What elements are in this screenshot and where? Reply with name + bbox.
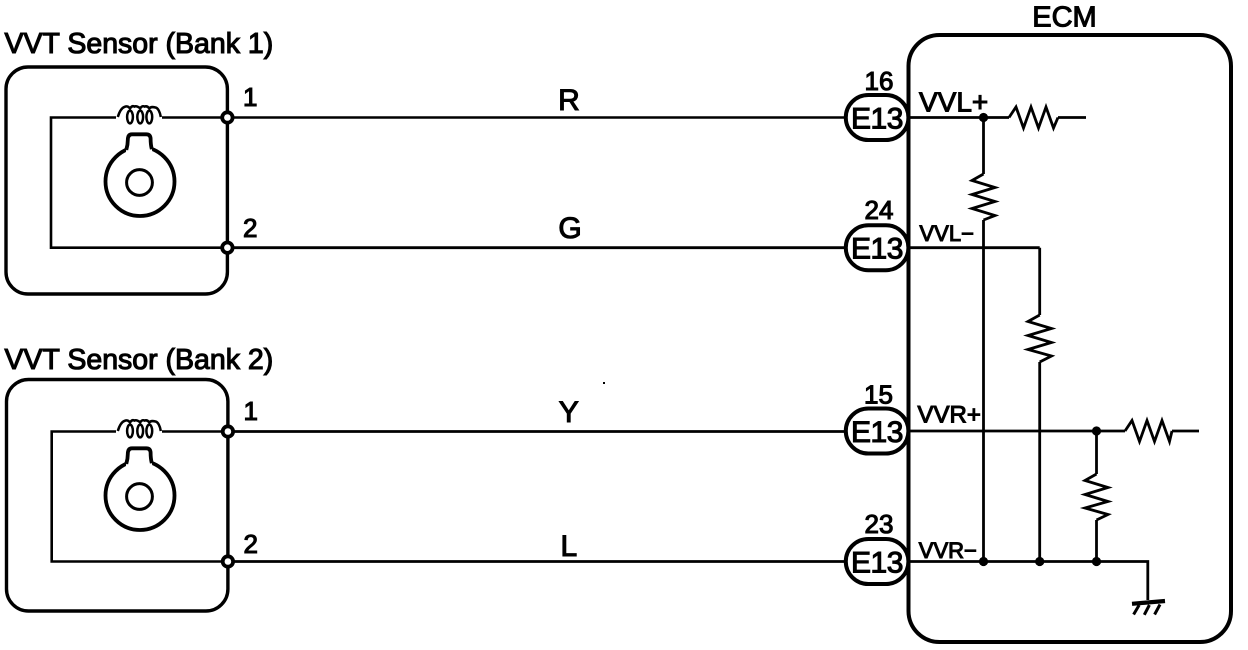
svg-text:VVL−: VVL− [920, 221, 974, 246]
vertical net V2 upper [1038, 248, 1041, 315]
svg-text:VVT Sensor (Bank 1): VVT Sensor (Bank 1) [5, 28, 274, 60]
svg-text:R: R [558, 84, 580, 117]
wire VVR+ [909, 430, 1126, 433]
wire VVR- [909, 562, 1148, 601]
speck artifact [603, 382, 605, 384]
pickup coil B2 [118, 420, 161, 437]
terminal 1 B1 [222, 112, 232, 122]
svg-text:24: 24 [865, 195, 894, 225]
terminal 2 B2 [223, 556, 233, 566]
svg-text:ECM: ECM [1032, 2, 1096, 34]
pickup coil B1 [118, 106, 161, 123]
svg-text:2: 2 [244, 529, 258, 559]
wire VVL+ [909, 116, 1010, 119]
svg-text:Y: Y [559, 396, 579, 429]
VVT sensor B2 inner loop wire [52, 432, 228, 562]
wire R [227, 116, 846, 119]
connector E13 pin 23 [846, 539, 909, 584]
wire L [228, 560, 846, 563]
svg-text:E13: E13 [851, 416, 903, 449]
wire Y [228, 430, 846, 433]
wire VVL- [909, 246, 1040, 249]
resistor R1 (VVL+ series) [1009, 107, 1058, 128]
connector E13 pin 24 [846, 225, 909, 270]
terminal 1 B2 [223, 426, 233, 436]
svg-text:VVR−: VVR− [919, 538, 977, 563]
junction dot V3/VVR- [1092, 557, 1101, 566]
wire after R4 [1172, 430, 1199, 433]
svg-text:VVT Sensor (Bank 2): VVT Sensor (Bank 2) [5, 344, 274, 376]
vertical net V2 lower [1038, 362, 1041, 562]
VVT sensor B1 inner loop wire [51, 118, 227, 248]
vertical net V3 lower [1095, 520, 1098, 562]
sensor rotor B1 [106, 134, 175, 216]
svg-text:VVL+: VVL+ [919, 86, 988, 117]
svg-text:16: 16 [865, 66, 894, 96]
resistor R5 (vertical V3) [1085, 474, 1108, 520]
junction dot VVL+ [979, 113, 988, 122]
wire G [227, 246, 846, 249]
sensor rotor B2 [106, 448, 175, 530]
ground [1132, 601, 1165, 615]
junction dot V2/VVR- [1035, 557, 1044, 566]
svg-text:G: G [558, 212, 581, 245]
resistor R3 (vertical V2) [1028, 315, 1052, 362]
junction dot VVR+ [1092, 426, 1101, 435]
svg-text:2: 2 [243, 213, 257, 243]
vertical net V1 upper [982, 118, 985, 175]
vertical net V1 lower [982, 220, 985, 562]
svg-text:15: 15 [864, 380, 893, 410]
svg-text:L: L [560, 530, 577, 563]
svg-text:E13: E13 [851, 103, 903, 136]
svg-text:E13: E13 [851, 547, 903, 580]
ECM box [909, 35, 1232, 642]
connector E13 pin 15 [846, 409, 909, 454]
junction dot V1/VVR- [979, 557, 988, 566]
svg-text:1: 1 [244, 396, 258, 426]
resistor R4 (VVR+ series) [1125, 421, 1172, 442]
VVT sensor B1 body [6, 67, 227, 294]
svg-text:VVR+: VVR+ [918, 402, 981, 429]
vertical net V3 upper [1095, 431, 1098, 474]
terminal 2 B1 [222, 243, 232, 253]
resistor R2 (vertical V1) [972, 174, 995, 220]
connector E13 pin 16 [846, 95, 909, 140]
svg-text:E13: E13 [851, 233, 903, 266]
VVT sensor B2 body [7, 380, 228, 612]
svg-text:23: 23 [865, 509, 894, 539]
svg-text:1: 1 [243, 82, 257, 112]
wire after R1 [1058, 116, 1086, 119]
